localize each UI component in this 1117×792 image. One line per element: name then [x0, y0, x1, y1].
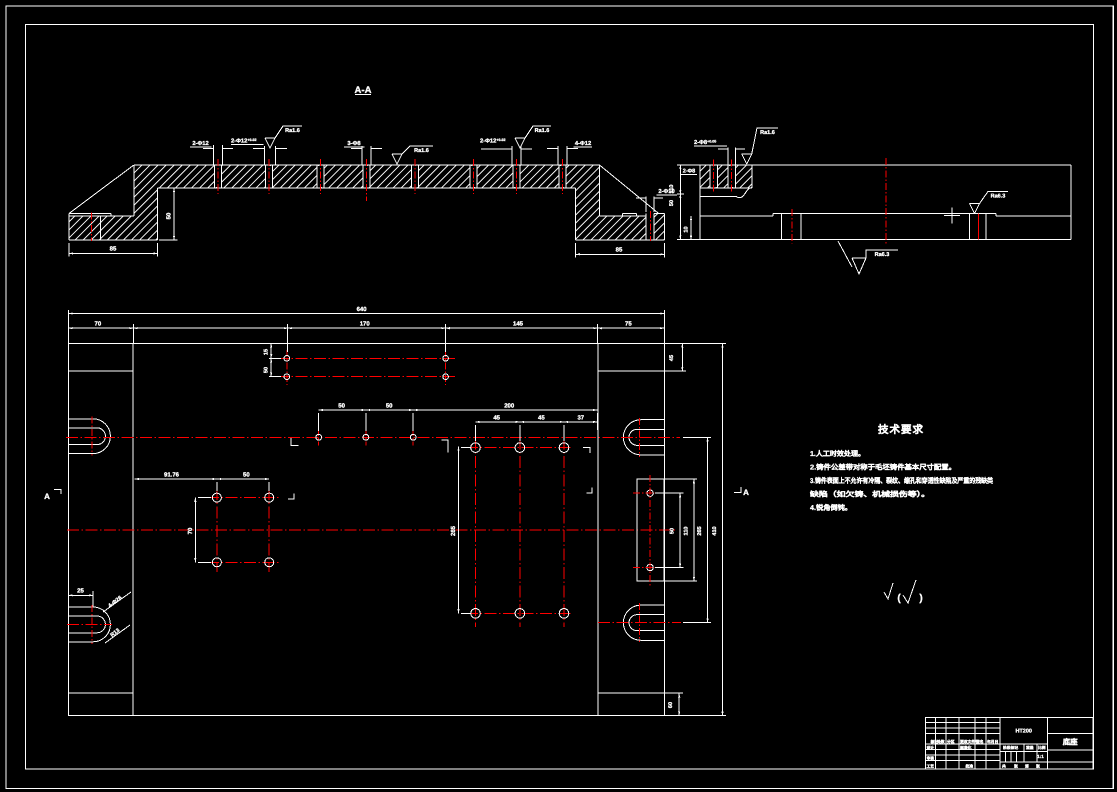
- svg-text:工艺: 工艺: [927, 764, 935, 769]
- svg-text:Ra1.6: Ra1.6: [285, 128, 300, 134]
- svg-text:2-Φ12: 2-Φ12: [192, 140, 208, 147]
- slab hole gap at x=269: [265, 166, 272, 187]
- side view surface mark Ra6.3 (bottom, with leader): [838, 241, 852, 267]
- svg-text:265: 265: [697, 526, 703, 535]
- plan 3x2 hole grid centerline horizontals (red): [466, 447, 573, 449]
- surface mark Ra1.6 no.1: [265, 126, 302, 148]
- side view: mid centerline (red): [885, 158, 887, 244]
- side view: bottom edge: [677, 239, 1071, 241]
- svg-text:底座: 底座: [1063, 738, 1079, 747]
- dim row 70/170/145/75: [69, 327, 665, 329]
- plan right cover plate outline: [637, 479, 664, 581]
- dim 85 right foot width: [576, 253, 665, 255]
- dim 91.76 / 50 (2x2 grid): [135, 478, 270, 480]
- svg-text:50: 50: [386, 403, 393, 410]
- section A-A: left column hatch: [134, 188, 158, 240]
- section A-A: left foot hatch: [69, 216, 134, 240]
- svg-text:85: 85: [616, 247, 623, 254]
- svg-text:265: 265: [450, 525, 457, 536]
- section A-A: right foot pad plate: [623, 213, 637, 215]
- side view: top edge: [677, 164, 1071, 166]
- svg-text:): ): [919, 593, 922, 604]
- section A-A: right rib diagonal: [600, 165, 659, 214]
- left U-slot centerline vertical (red): [91, 417, 93, 456]
- surface mark Ra1.6 no.2 (on slab): [392, 146, 433, 164]
- svg-text:85: 85: [110, 246, 117, 253]
- plan hole (2x2 grid): [265, 558, 274, 567]
- svg-text:1.人工时效处理。: 1.人工时效处理。: [810, 449, 865, 458]
- dim row 45/45/37: [476, 421, 598, 423]
- svg-text:410: 410: [712, 526, 718, 535]
- plan small hole (top group): [443, 356, 449, 362]
- plan bottom-right U-slot centerline horizontal (red): [598, 622, 681, 624]
- title block left grid rows: [926, 722, 1001, 724]
- title block middle rows: [1000, 743, 1047, 745]
- slab hole gap at x=320.5: [317, 166, 324, 187]
- dim 265 vertical (3x2 grid): [458, 447, 460, 614]
- svg-text:10: 10: [683, 226, 689, 232]
- svg-text:50: 50: [243, 472, 250, 479]
- plan view: right foot top line: [598, 370, 665, 372]
- svg-text:75: 75: [625, 321, 632, 328]
- svg-text:170: 170: [360, 321, 371, 328]
- svg-text:HT200: HT200: [1015, 729, 1032, 735]
- svg-text:Ra6.3: Ra6.3: [875, 252, 890, 258]
- section A-A: left foot outline: [68, 214, 70, 241]
- dim 60 bottom right: [678, 693, 680, 716]
- dim 50 left foot height: [173, 188, 175, 240]
- svg-text:110: 110: [684, 527, 690, 536]
- plan view: right foot inner edge: [597, 344, 599, 716]
- plan top hole group centerline lower (red): [277, 376, 455, 378]
- side view: left edge: [699, 165, 701, 240]
- side view left dim 10: [690, 216, 692, 240]
- side view: counterbore hole right: [968, 214, 970, 240]
- svg-text:15: 15: [264, 349, 270, 355]
- section A-A: right column edges: [599, 165, 601, 216]
- left foot counterbore edge line: [100, 216, 102, 240]
- plan view: left foot bottom line: [69, 692, 134, 694]
- right U-slot centerline vertical (red): [639, 418, 641, 457]
- svg-text:110: 110: [669, 185, 675, 194]
- dim 640 overall width: [69, 313, 665, 315]
- title block middle verticals: [1046, 717, 1048, 769]
- svg-text:Ra1.6: Ra1.6: [535, 128, 550, 134]
- svg-text:70: 70: [187, 527, 194, 534]
- svg-text:640: 640: [357, 306, 368, 313]
- svg-text:145: 145: [513, 321, 524, 328]
- svg-text:批准: 批准: [966, 764, 974, 769]
- svg-text:91.76: 91.76: [164, 472, 180, 479]
- svg-text:37: 37: [577, 415, 584, 422]
- svg-text:年月日: 年月日: [987, 739, 999, 744]
- plan small hole (top group): [284, 374, 290, 380]
- svg-text:45: 45: [669, 355, 675, 361]
- svg-text:重量: 重量: [1026, 745, 1034, 750]
- plan main horizontal centerline (red): [66, 436, 680, 438]
- plan hole (2x2 grid): [265, 493, 274, 502]
- title block outer box: [926, 717, 1094, 769]
- svg-text:张: 张: [1014, 763, 1018, 768]
- plan 2x2 hole grid centerlines (red): [216, 488, 218, 572]
- plan bottom-left U-slot centerline horizontal (red): [67, 623, 112, 625]
- section A-A: right foot hatch right part: [654, 214, 665, 241]
- svg-text:60: 60: [668, 702, 674, 708]
- title block middle row small cells: [1004, 752, 1006, 763]
- plan view: left foot top line: [69, 370, 134, 372]
- svg-text:共: 共: [1002, 763, 1006, 768]
- svg-text:分区: 分区: [947, 739, 955, 744]
- plan left U-slot at y=436.2: [69, 419, 111, 454]
- plan view: outer outline: [69, 344, 665, 716]
- svg-text:45: 45: [493, 415, 500, 422]
- svg-text:技术要求: 技术要求: [878, 423, 924, 436]
- section cut mark A right: [734, 487, 741, 493]
- svg-text:比例: 比例: [1038, 745, 1046, 750]
- section A-A: left column edges: [133, 165, 135, 216]
- dim 70 vertical (2x2 grid): [194, 498, 196, 563]
- plan top hole group centerline upper (red): [277, 357, 455, 359]
- plan small hole (top group): [284, 356, 290, 362]
- side view: right hole centerline (red): [977, 214, 979, 240]
- section A-A: left rib diagonal: [69, 165, 134, 214]
- dim row 50/50/200: [319, 409, 598, 411]
- slab hole gap at x=562.5: [559, 166, 566, 187]
- plan center small holes row: [318, 429, 320, 446]
- title block left grid verticals: [934, 717, 936, 769]
- svg-text:4-Φ12: 4-Φ12: [575, 140, 591, 147]
- plan second horizontal centerline (red): [67, 529, 676, 531]
- left U-slot centerline vertical (red): [91, 605, 93, 644]
- surface mark Ra1.6 no.3: [515, 126, 551, 148]
- svg-text:50: 50: [264, 367, 270, 373]
- dim 85 left foot width: [69, 252, 158, 254]
- svg-text:张: 张: [1036, 763, 1040, 768]
- slab hole gap at x=473.5: [470, 166, 477, 187]
- plan right plate hole centerlines (red): [649, 475, 651, 586]
- plan small hole (top group): [443, 374, 449, 380]
- plan right U-slot at y=622.7: [623, 605, 664, 640]
- right U-slot centerline vertical (red): [639, 603, 641, 642]
- section A-A: right foot top surfaces: [600, 215, 647, 217]
- right foot hole centerline: [649, 211, 651, 241]
- svg-text:阶段标记: 阶段标记: [1003, 745, 1018, 750]
- plan hole (3x2 grid): [559, 609, 569, 619]
- section A-A: slab top outline: [134, 164, 600, 166]
- side view: right edge: [1070, 165, 1072, 240]
- plan right plate holes: [647, 490, 653, 496]
- side view surface mark Ra1.6: [742, 128, 778, 164]
- plan view: right foot bottom line: [598, 692, 665, 694]
- plan hole (3x2 grid): [471, 443, 481, 453]
- svg-text:2.铸件公差带对称于毛坯铸件基本尺寸配置。: 2.铸件公差带对称于毛坯铸件基本尺寸配置。: [810, 463, 956, 472]
- svg-text:A: A: [44, 492, 50, 501]
- plan hole (3x2 grid): [471, 609, 481, 619]
- svg-text:200: 200: [504, 403, 515, 410]
- svg-text:25: 25: [77, 588, 84, 595]
- svg-text:A: A: [743, 488, 749, 497]
- svg-text:Ra6.3: Ra6.3: [991, 194, 1006, 200]
- slab hole gap at x=366.5: [363, 166, 370, 187]
- dimension arrowheads: [69, 312, 73, 314]
- surface roughness default mark (check symbols): [884, 583, 893, 599]
- svg-text:50: 50: [670, 528, 676, 534]
- side view: broken-out section boundary: [701, 187, 752, 189]
- plan view: left foot inner edge: [132, 344, 134, 716]
- svg-text:50: 50: [338, 403, 345, 410]
- side view: counterbore boss left: [781, 214, 783, 240]
- slab hole gap at x=218: [214, 166, 221, 187]
- svg-text:1:1: 1:1: [1037, 754, 1044, 759]
- section A-A: slab hatch: [134, 165, 600, 188]
- side view surface mark Ra6.3 (plate top): [970, 192, 1009, 214]
- dim 25 bottom left U-slot: [69, 594, 94, 596]
- right stacked dims 50/110/265/410: [679, 493, 681, 567]
- plan hole (3x2 grid): [515, 443, 525, 453]
- svg-text:第: 第: [1025, 763, 1029, 768]
- title block right section rows: [1047, 732, 1093, 734]
- side view: base plate top surface: [700, 215, 773, 217]
- svg-text:3-Φ8: 3-Φ8: [347, 140, 361, 147]
- section A-A: right foot hatch left part: [600, 216, 647, 240]
- svg-text:设计: 设计: [927, 745, 935, 750]
- plan left U-slot at y=624.4: [69, 607, 111, 642]
- svg-text:3.铸件表面上不允许有冷隔、裂纹、缩孔和穿透性缺陷及严重的残: 3.铸件表面上不允许有冷隔、裂纹、缩孔和穿透性缺陷及严重的残缺类: [810, 476, 994, 485]
- plan hole (3x2 grid): [559, 443, 569, 453]
- side view hole gap: [728, 166, 735, 187]
- svg-text:Ra1.6: Ra1.6: [414, 148, 429, 154]
- svg-text:45: 45: [538, 415, 545, 422]
- side view: hatched broken-out section block: [701, 165, 752, 188]
- svg-text:4.锐角倒钝。: 4.锐角倒钝。: [810, 503, 852, 512]
- section A-A: right column hatch: [576, 188, 600, 240]
- section A-A: slab bottom outline: [158, 187, 576, 189]
- svg-text:50: 50: [166, 212, 173, 219]
- plan hole (2x2 grid): [212, 558, 221, 567]
- svg-text:标准化: 标准化: [959, 745, 972, 750]
- side view: hole centerlines (red): [713, 160, 715, 192]
- side view hole gap: [710, 166, 717, 187]
- svg-text:Ra1.6: Ra1.6: [760, 130, 775, 136]
- section A-A: right foot outline: [664, 214, 666, 241]
- plan right U-slot at y=437.3: [623, 420, 664, 455]
- svg-text:签名: 签名: [975, 739, 984, 744]
- plan top hole group vertical crosshairs (red): [286, 350, 288, 385]
- pocket corner marks: [291, 438, 299, 446]
- dim 15/50 top group vertical: [270, 344, 272, 377]
- svg-text:50: 50: [669, 200, 675, 206]
- slab hole centerlines (red): [217, 159, 219, 194]
- slab hole gap at x=415: [411, 166, 418, 187]
- svg-text:审核: 审核: [927, 756, 935, 761]
- right foot hole gap edges: [645, 214, 647, 241]
- svg-text:2-Φ8: 2-Φ8: [683, 169, 695, 175]
- section A-A: left foot pad plate: [69, 213, 111, 215]
- svg-text:70: 70: [95, 321, 102, 328]
- plan hole (3x2 grid): [515, 609, 525, 619]
- side view: crosshair mark: [944, 215, 960, 217]
- plan hole (2x2 grid): [212, 493, 221, 502]
- left foot hole centerline: [90, 213, 92, 242]
- svg-text:处数: 处数: [936, 739, 945, 744]
- dim 45 top right: [681, 344, 683, 372]
- plan 3x2 hole grid centerline verticals (red): [475, 437, 477, 627]
- side view left dims 110 and 50: [679, 165, 681, 240]
- slab hole gap at x=516.5: [513, 166, 520, 187]
- svg-text:缺陷（如欠铸、机械损伤等）。: 缺陷（如欠铸、机械损伤等）。: [809, 490, 930, 499]
